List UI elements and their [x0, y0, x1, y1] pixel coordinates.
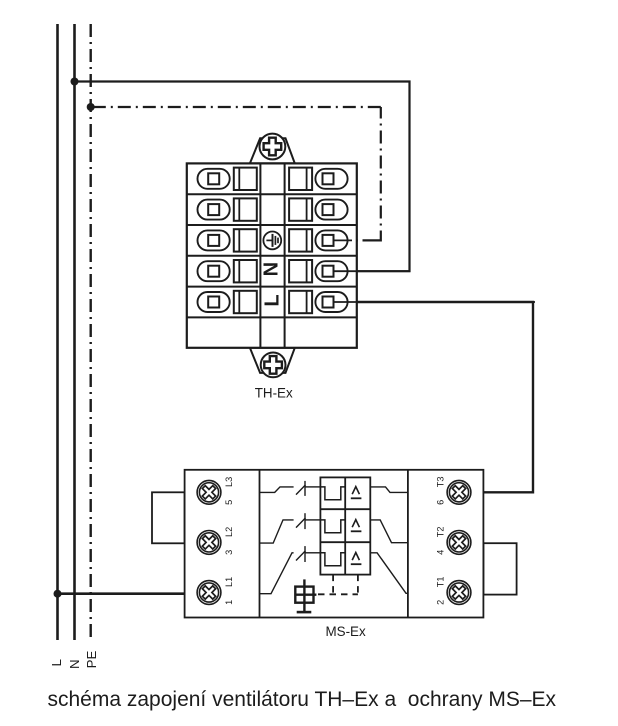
- svg-text:L: L: [49, 659, 64, 666]
- svg-text:L3: L3: [224, 477, 234, 487]
- svg-text:5: 5: [224, 500, 234, 505]
- svg-text:1: 1: [224, 600, 234, 605]
- svg-text:L1: L1: [224, 577, 234, 587]
- svg-text:schéma zapojení ventilátoru TH: schéma zapojení ventilátoru TH–Ex a ochr…: [48, 688, 557, 711]
- svg-text:T3: T3: [435, 477, 445, 488]
- svg-text:T2: T2: [435, 527, 445, 538]
- svg-text:2: 2: [435, 600, 445, 605]
- svg-text:T1: T1: [435, 577, 445, 588]
- svg-text:3: 3: [224, 550, 234, 555]
- svg-text:N: N: [67, 659, 82, 669]
- svg-text:PE: PE: [84, 651, 99, 669]
- svg-text:4: 4: [435, 550, 445, 555]
- svg-text:L: L: [262, 294, 284, 306]
- svg-text:TH-Ex: TH-Ex: [255, 386, 293, 401]
- svg-text:N: N: [261, 262, 283, 276]
- svg-text:6: 6: [435, 500, 445, 505]
- svg-text:MS-Ex: MS-Ex: [326, 624, 366, 639]
- svg-text:L2: L2: [224, 527, 234, 537]
